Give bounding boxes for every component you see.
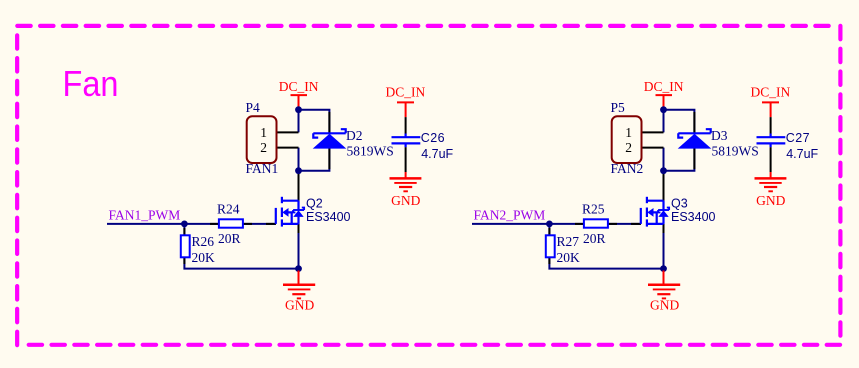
svg-text:P4: P4: [246, 100, 261, 115]
svg-text:FAN1_PWM: FAN1_PWM: [109, 208, 181, 223]
svg-text:20K: 20K: [192, 250, 216, 265]
svg-text:R25: R25: [582, 202, 605, 217]
svg-text:GND: GND: [650, 298, 679, 313]
svg-text:DC_IN: DC_IN: [386, 84, 426, 99]
svg-text:DC_IN: DC_IN: [279, 79, 319, 94]
svg-text:FAN1: FAN1: [246, 161, 279, 176]
svg-text:20K: 20K: [557, 250, 581, 265]
svg-text:R26: R26: [192, 234, 215, 249]
svg-text:Q3: Q3: [671, 197, 688, 211]
svg-text:1: 1: [625, 125, 632, 140]
svg-text:20R: 20R: [583, 231, 606, 246]
svg-text:1: 1: [260, 125, 267, 140]
svg-text:5819WS: 5819WS: [712, 144, 759, 159]
svg-text:C26: C26: [421, 131, 445, 145]
svg-text:GND: GND: [285, 298, 314, 313]
svg-text:ES3400: ES3400: [306, 210, 351, 224]
svg-text:2: 2: [260, 140, 267, 155]
svg-text:Fan: Fan: [63, 63, 119, 104]
svg-text:20R: 20R: [218, 231, 241, 246]
svg-text:DC_IN: DC_IN: [751, 84, 791, 99]
svg-text:R27: R27: [557, 234, 580, 249]
svg-text:5819WS: 5819WS: [347, 144, 394, 159]
svg-text:DC_IN: DC_IN: [644, 79, 684, 94]
svg-text:D3: D3: [711, 128, 728, 143]
svg-text:ES3400: ES3400: [671, 210, 716, 224]
svg-text:D2: D2: [346, 128, 363, 143]
svg-text:FAN2: FAN2: [611, 161, 644, 176]
svg-text:4.7uF: 4.7uF: [786, 147, 818, 161]
svg-text:FAN2_PWM: FAN2_PWM: [474, 208, 546, 223]
svg-text:GND: GND: [756, 193, 785, 208]
svg-text:2: 2: [625, 140, 632, 155]
svg-text:Q2: Q2: [306, 197, 323, 211]
svg-text:C27: C27: [786, 131, 810, 145]
svg-text:GND: GND: [391, 193, 420, 208]
svg-text:R24: R24: [217, 202, 240, 217]
svg-text:4.7uF: 4.7uF: [421, 147, 453, 161]
svg-text:P5: P5: [611, 100, 626, 115]
